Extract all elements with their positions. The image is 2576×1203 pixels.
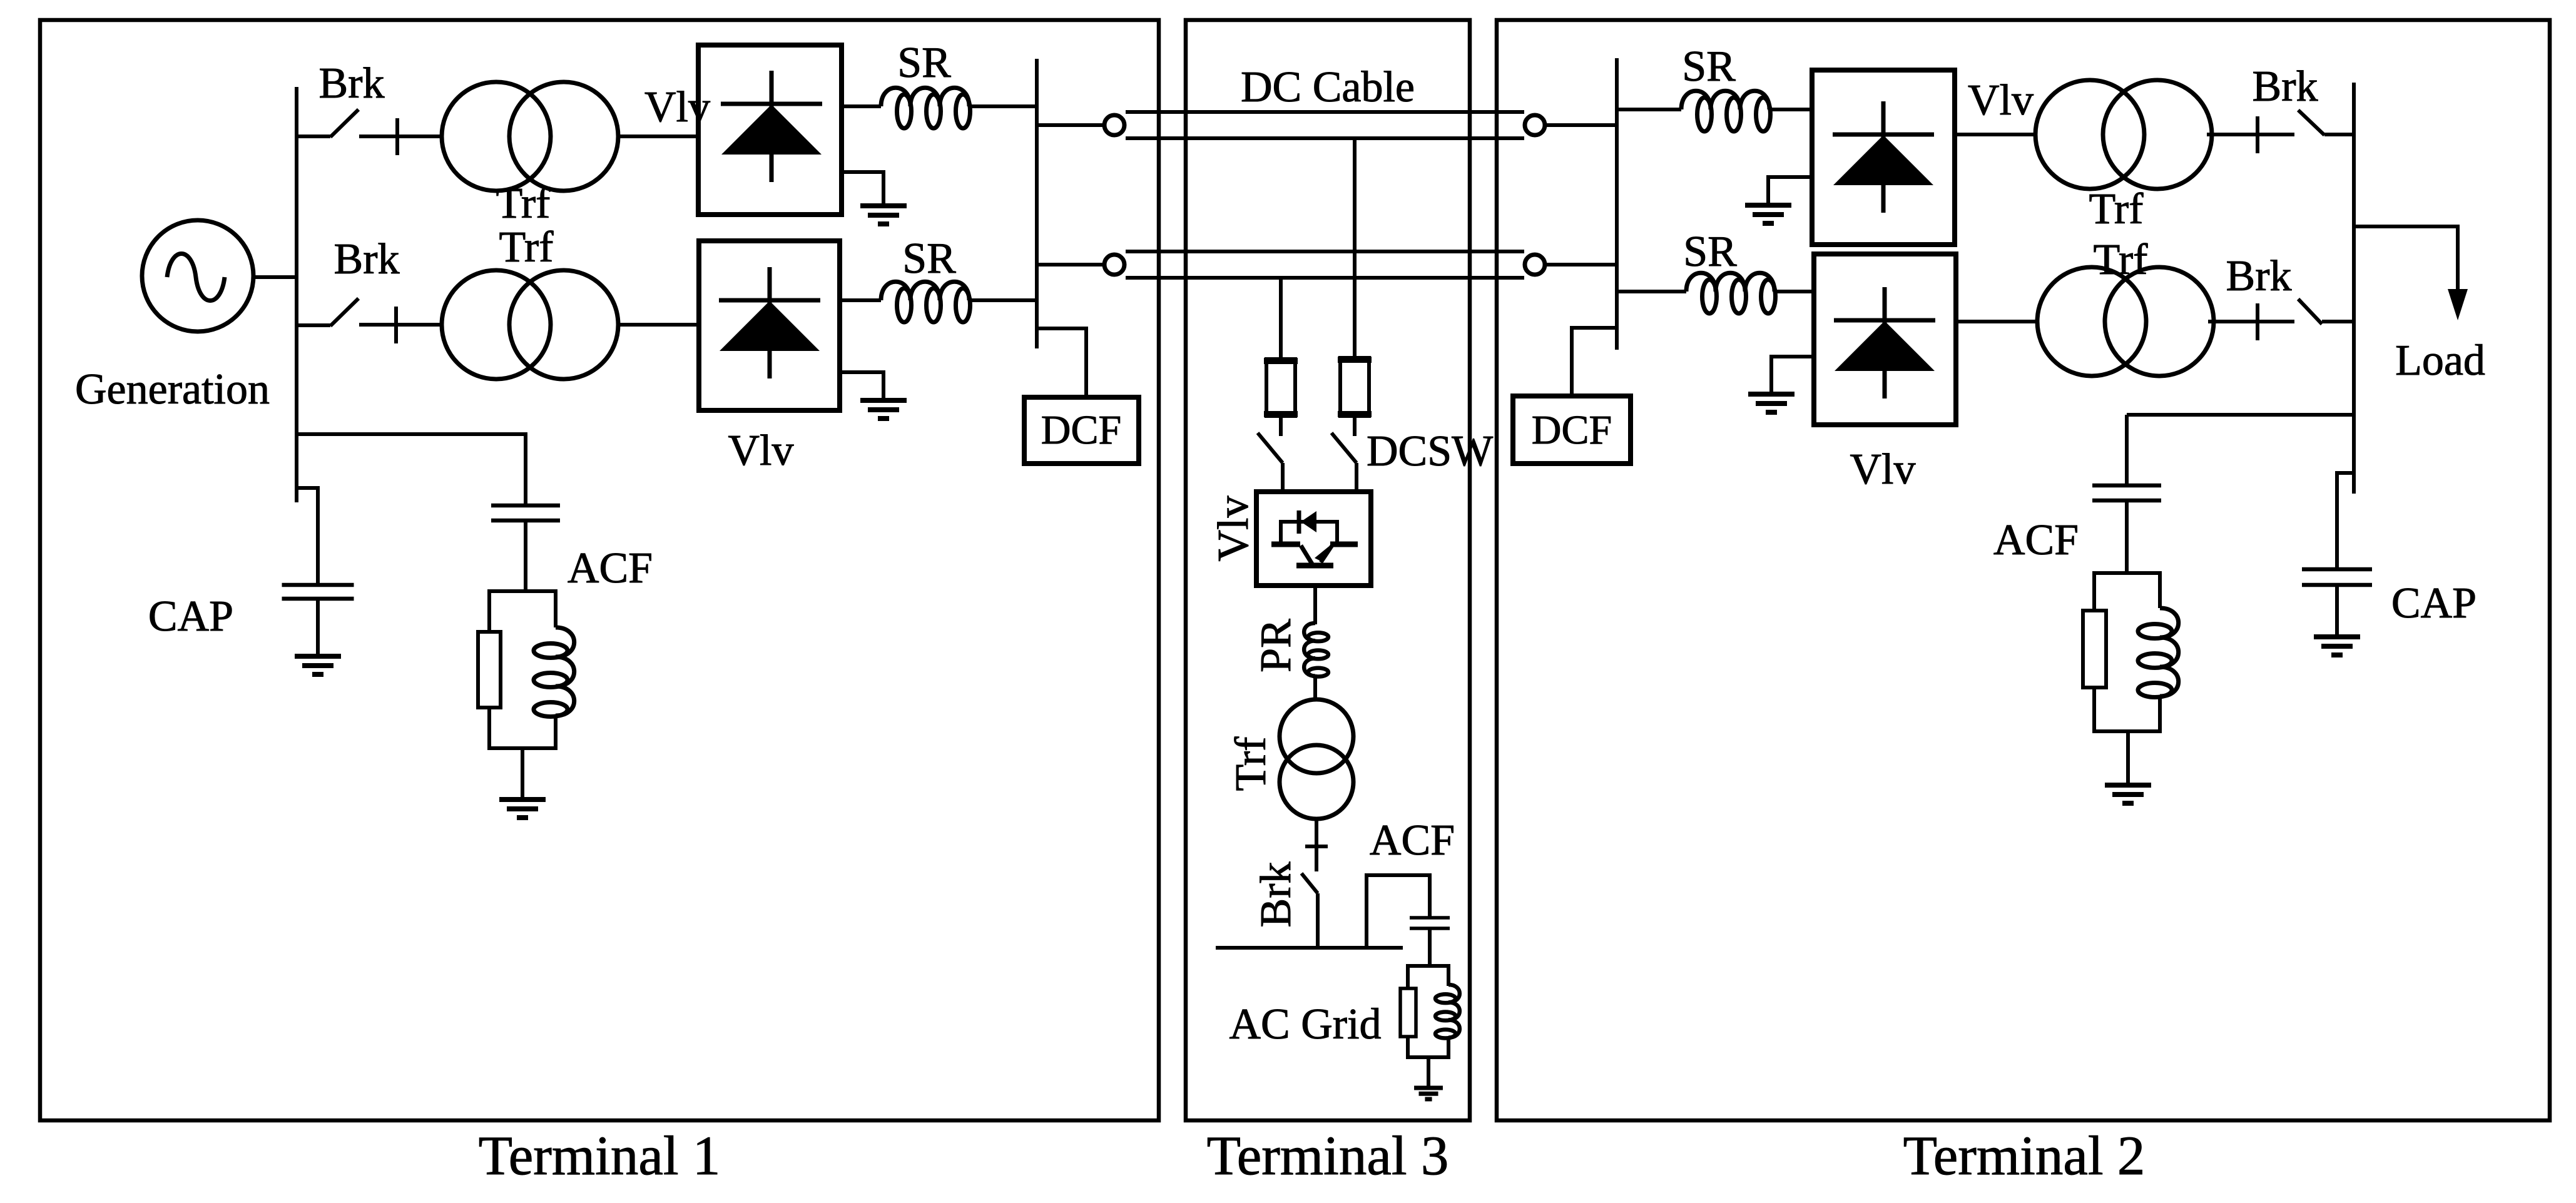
wire AC bus to ACF T2: [2127, 413, 2354, 417]
breaker Brk T2 lower: out wire: [2322, 320, 2354, 323]
svg-text:CAP: CAP: [148, 592, 233, 641]
svg-text:Terminal 3: Terminal 3: [1207, 1125, 1449, 1187]
label SR T2 upper: [1682, 43, 1736, 91]
resistor of ACF T1: [478, 589, 501, 750]
converter valve Vlv T2 upper: box: [1812, 70, 1955, 245]
breaker Brk T2 lower: blade: [2298, 299, 2322, 324]
node AC bus T2: [2352, 83, 2356, 494]
ground of CAP T2: [2314, 585, 2360, 655]
phase reactor PR T3: [1304, 623, 1328, 677]
svg-text:Trf: Trf: [499, 223, 554, 272]
node AC bus T1: [295, 87, 298, 502]
svg-text:Trf: Trf: [2089, 185, 2144, 233]
wire SR to DC bus T1 lower: [969, 298, 1037, 302]
converter valve Vlv T2 upper: thyristor: [1833, 101, 1934, 213]
cable terminal circle T1 pole2: [1104, 255, 1124, 275]
svg-text:Generation: Generation: [75, 365, 270, 414]
switch DCSW left: stem: [1279, 417, 1283, 436]
breaker Brk T3: wire+tick: [1305, 819, 1328, 871]
label Vlv T2 upper: [1968, 76, 2034, 124]
svg-text:DCF: DCF: [1532, 407, 1612, 453]
label Vlv T3: [1209, 496, 1258, 562]
wire AC bus to CAP T2: [2337, 473, 2354, 569]
wire cable2 to DC bus T2: [1545, 263, 1617, 266]
AC source (Generation) G1: [142, 220, 253, 332]
capacitor CAP T1: [282, 585, 354, 599]
label ACF T2: [1993, 516, 2079, 564]
label SR T2 lower: [1683, 228, 1737, 276]
transformer Trf T1 upper: [442, 82, 618, 191]
DC cable pole1 line b: [1126, 136, 1524, 140]
wire PR to Trf T3: [1313, 674, 1317, 701]
breaker Brk T1 lower: contact wire+tick: [359, 307, 442, 343]
wire cable1 tap T3: [1353, 138, 1357, 357]
wire down to cap ACF T2: [2125, 415, 2129, 485]
switch DCSW right: stem: [1353, 417, 1357, 436]
converter valve Vlv T1 lower: box: [699, 241, 840, 410]
label Terminal 3: [1207, 1125, 1449, 1187]
wire cable1 to DC bus T2: [1545, 123, 1617, 127]
RL filter loop T1: top wire: [489, 589, 556, 593]
label Trf T1 lower: [499, 223, 554, 272]
breaker Brk T3: blade: [1301, 873, 1318, 893]
wire Vlv to Trf T2 lower: [1956, 320, 2038, 323]
svg-text:Vlv: Vlv: [1850, 445, 1916, 494]
svg-text:CAP: CAP: [2391, 579, 2477, 627]
label Vlv T1 upper: [644, 83, 710, 131]
svg-text:PR: PR: [1252, 619, 1300, 673]
svg-text:Vlv: Vlv: [1209, 496, 1258, 562]
svg-text:DCF: DCF: [1041, 407, 1121, 453]
svg-text:Trf: Trf: [2094, 236, 2149, 284]
converter valve Vlv T3: IGBT body: [1271, 520, 1358, 566]
switch DCSW left: out wire: [1281, 463, 1285, 493]
label Brk T1 lower: [334, 235, 400, 283]
wire AC bus to ACF T1: [297, 434, 526, 505]
breaker Brk T2 upper: blade: [2298, 110, 2324, 135]
smoothing reactor SR T1 lower: [881, 282, 970, 322]
label Vlv T1 lower: [728, 427, 794, 475]
converter valve Vlv T3: IGBT diode branch: [1281, 510, 1337, 534]
converter valve Vlv T2 lower: box: [1814, 254, 1956, 425]
ground of ACF T1: [499, 748, 546, 818]
cable terminal circle T2 pole2: [1525, 255, 1545, 275]
label ACF T3: [1370, 816, 1455, 865]
transformer Trf T1 lower: [442, 270, 618, 379]
label Vlv T2 lower: [1850, 445, 1916, 494]
node DC bus T1: [1035, 59, 1039, 348]
DC cable pole1 line a: [1126, 110, 1524, 114]
svg-text:Trf: Trf: [1227, 736, 1275, 791]
wire bus to ACF T3: [1367, 875, 1430, 948]
svg-text:Brk: Brk: [334, 235, 400, 283]
ground of ACF T2: [2105, 731, 2151, 803]
breaker Brk T1 lower: blade: [330, 298, 359, 326]
svg-text:DC Cable: DC Cable: [1241, 63, 1415, 111]
svg-text:Brk: Brk: [319, 59, 385, 108]
svg-text:AC Grid: AC Grid: [1229, 1000, 1381, 1048]
label Brk T3: [1252, 862, 1300, 928]
svg-text:Load: Load: [2395, 337, 2485, 385]
load arrow: [2448, 289, 2468, 320]
label Trf T2 upper: [2089, 185, 2144, 233]
wire cap to RL T2: [2125, 500, 2129, 573]
breaker Brk T2 upper: out wire: [2324, 133, 2354, 136]
wire DC bus to DCF T1: [1037, 328, 1086, 397]
svg-text:ACF: ACF: [568, 544, 653, 592]
label SR T1 upper: [897, 39, 951, 87]
wire Vlv to SR T1 lower: [840, 298, 881, 302]
svg-text:Trf: Trf: [496, 180, 551, 228]
svg-text:Terminal 1: Terminal 1: [479, 1125, 721, 1187]
label CAP T2: [2391, 579, 2477, 627]
RL filter loop T2: top wire: [2094, 571, 2160, 575]
wire Vlv to PR T3: [1313, 586, 1317, 624]
terminal 1 box: [40, 20, 1159, 1120]
ground of ACF T3: [1414, 1057, 1443, 1099]
transformer Trf T3: [1280, 699, 1353, 819]
wire DC bus to cable1 T1: [1037, 123, 1106, 127]
switch DCSW left: blade: [1258, 433, 1283, 463]
cable terminal circle T2 pole1: [1525, 115, 1545, 135]
DC filter DCF T2: box: [1513, 396, 1631, 464]
ground of CAP T1: [295, 599, 341, 674]
wire SR to DC bus T1 upper: [969, 104, 1037, 108]
DC cable pole2 line b: [1126, 276, 1524, 280]
svg-text:Brk: Brk: [2226, 252, 2292, 300]
RL filter loop T2: bottom wire: [2094, 729, 2160, 733]
ground of Vlv T2 upper: [1745, 177, 1812, 223]
label Terminal 1: [479, 1125, 721, 1187]
svg-text:SR: SR: [1683, 228, 1737, 276]
breaker Brk T2 lower: wire+tick: [2208, 303, 2294, 340]
label DCF T1: [1041, 407, 1121, 453]
terminal 3 box: [1186, 20, 1470, 1120]
capacitor of ACF T3: [1410, 918, 1450, 928]
smoothing reactor SR T2 upper: [1681, 91, 1771, 131]
wire cap to RL T1: [524, 520, 527, 591]
wire SR to Vlv T2 lower: [1774, 290, 1814, 293]
svg-text:SR: SR: [897, 39, 951, 87]
svg-text:Vlv: Vlv: [1968, 76, 2034, 124]
RL filter loop T1: bottom wire: [489, 746, 556, 750]
capacitor of ACF T1: [491, 505, 560, 520]
DC cable pole2 line a: [1126, 250, 1524, 253]
wire AC bus to CAP T1: [297, 488, 318, 585]
label SR T1 lower: [902, 235, 956, 283]
wire SR to Vlv T2 upper: [1769, 108, 1812, 111]
label CAP T1: [148, 592, 233, 641]
breaker Brk T1 upper: contact wire+tick: [359, 118, 442, 155]
svg-text:Brk: Brk: [2253, 63, 2318, 111]
wire cable2 tap T3: [1279, 278, 1283, 358]
wire DC bus to SR T2 lower: [1617, 290, 1686, 293]
label Brk T1 upper: [319, 59, 385, 108]
label AC Grid: [1229, 1000, 1381, 1048]
label DCSW: [1367, 427, 1493, 475]
wire Vlv to SR T1 upper: [842, 104, 881, 108]
label Brk T2 lower: [2226, 252, 2292, 300]
transformer Trf T2 lower: [2037, 267, 2214, 376]
inductor of ACF T2: [2138, 571, 2179, 733]
breaker Brk T3: out wire: [1316, 893, 1320, 948]
smoothing reactor SR T2 lower: [1686, 273, 1776, 313]
capacitor CAP T2: [2302, 569, 2372, 585]
switch DCSW right: out wire: [1355, 463, 1358, 493]
node AC grid bus T3: [1216, 946, 1403, 950]
svg-text:Vlv: Vlv: [728, 427, 794, 475]
svg-text:Brk: Brk: [1252, 862, 1300, 928]
label Generation: [75, 365, 270, 414]
resistor of ACF T3: [1400, 964, 1416, 1059]
label Trf T2 lower: [2094, 236, 2149, 284]
surge resistor right T3: [1338, 358, 1372, 416]
breaker Brk T1 upper: blade: [330, 109, 359, 137]
terminal 2 box: [1497, 20, 2550, 1120]
label DC Cable: [1241, 63, 1415, 111]
svg-text:DCSW: DCSW: [1367, 427, 1493, 475]
wire DC bus to SR T2 upper: [1617, 108, 1681, 111]
transformer Trf T2 upper: [2035, 80, 2212, 189]
label Trf T1 upper: [496, 180, 551, 228]
svg-text:ACF: ACF: [1370, 816, 1455, 865]
switch DCSW right: blade: [1331, 433, 1357, 463]
svg-text:ACF: ACF: [1993, 516, 2079, 564]
wire source to AC bus: [253, 275, 297, 279]
wire DC bus to DCF T2: [1572, 328, 1617, 396]
smoothing reactor SR T1 upper: [881, 88, 970, 128]
label Terminal 2: [1903, 1125, 2146, 1187]
breaker Brk T2 upper: wire+tick: [2207, 116, 2294, 153]
converter valve Vlv T2 lower: thyristor: [1834, 287, 1935, 398]
inductor of ACF T1: [534, 589, 574, 750]
node DC bus T2: [1615, 58, 1619, 350]
label Load: [2395, 337, 2485, 385]
svg-text:SR: SR: [902, 235, 956, 283]
ground of Vlv T1 upper: [842, 172, 907, 224]
label Brk T2 upper: [2253, 63, 2318, 111]
RL filter loop T3: bottom wire: [1408, 1055, 1448, 1059]
breaker Brk T1 upper: stub: [297, 135, 330, 138]
wire Vlv to Trf T2 upper: [1955, 133, 2035, 136]
converter valve Vlv T1 upper: box: [698, 45, 842, 215]
RL filter loop T3: top wire: [1408, 964, 1448, 968]
load branch wire: [2354, 226, 2458, 290]
surge resistor left T3: [1264, 359, 1298, 416]
label PR T3: [1252, 619, 1300, 673]
inductor of ACF T3: [1435, 964, 1460, 1059]
label DCF T2: [1532, 407, 1612, 453]
ground of Vlv T2 lower: [1748, 357, 1814, 412]
converter valve Vlv T1 lower: thyristor: [719, 267, 820, 378]
label ACF T1: [568, 544, 653, 592]
DC filter DCF T1: box: [1024, 397, 1139, 464]
converter valve Vlv T1 upper: thyristor: [721, 71, 822, 182]
resistor of ACF T2: [2083, 571, 2106, 733]
wire cap to RL T3: [1428, 928, 1432, 966]
wire Trf to Vlv T1 upper: [618, 135, 698, 138]
wire DC bus to cable2 T1: [1037, 263, 1106, 266]
breaker Brk T1 lower: stub: [297, 323, 330, 327]
cable terminal circle T1 pole1: [1104, 115, 1124, 135]
converter valve Vlv T3: box: [1256, 492, 1371, 586]
wire Trf to Vlv T1 lower: [618, 323, 699, 327]
svg-text:Terminal 2: Terminal 2: [1903, 1125, 2146, 1187]
label Trf T3: [1227, 736, 1275, 791]
ground of Vlv T1 lower: [840, 372, 907, 419]
svg-text:SR: SR: [1682, 43, 1736, 91]
capacitor of ACF T2: [2092, 485, 2161, 500]
